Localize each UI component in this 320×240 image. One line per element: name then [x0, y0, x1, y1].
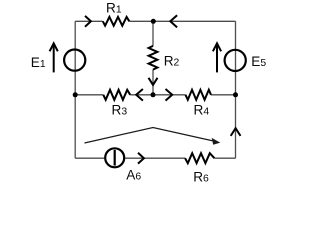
svg-text:E5: E5: [251, 54, 266, 69]
current arrow up right branch: [231, 128, 241, 136]
current arrow out of A6 (right): [138, 153, 144, 164]
current source A6: [105, 148, 124, 167]
svg-text:R2: R2: [164, 54, 180, 69]
resistor R3: [103, 90, 130, 100]
wire top horizontal: [75, 20, 235, 22]
current arrow down through R2: [149, 78, 158, 85]
EMF arrow E1 (up): [50, 43, 58, 72]
wire bottom horizontal: [75, 157, 235, 159]
voltage source E5: [225, 50, 246, 71]
svg-text:R6: R6: [193, 170, 209, 185]
wire right vertical: [235, 21, 237, 158]
svg-text:R1: R1: [106, 0, 122, 15]
resistor R6: [185, 153, 214, 163]
current arrow into R1 (right): [85, 16, 91, 27]
junction dot middle-right node: [233, 92, 238, 97]
resistor R4: [186, 90, 212, 100]
svg-text:R3: R3: [112, 102, 128, 117]
junction dot middle-left node: [73, 92, 78, 97]
current arrow toward R3 (left): [136, 89, 143, 101]
wire middle horizontal: [75, 94, 235, 96]
svg-text:R4: R4: [194, 102, 210, 117]
wire center vertical R2 branch: [152, 21, 154, 95]
svg-text:E1: E1: [31, 55, 46, 70]
junction dot top node: [151, 19, 156, 24]
wire left vertical: [74, 21, 76, 158]
junction dot middle-center node: [151, 92, 156, 97]
svg-text:A6: A6: [126, 168, 141, 183]
resistor R2: [149, 46, 158, 70]
resistor R1: [103, 17, 130, 26]
EMF arrow E5 (up): [213, 43, 221, 72]
current arrow toward R4 (right): [166, 89, 173, 101]
voltage source E1: [64, 50, 85, 71]
loop current arrow (bent): [85, 128, 221, 145]
current arrow toward top junction (left): [170, 15, 177, 27]
